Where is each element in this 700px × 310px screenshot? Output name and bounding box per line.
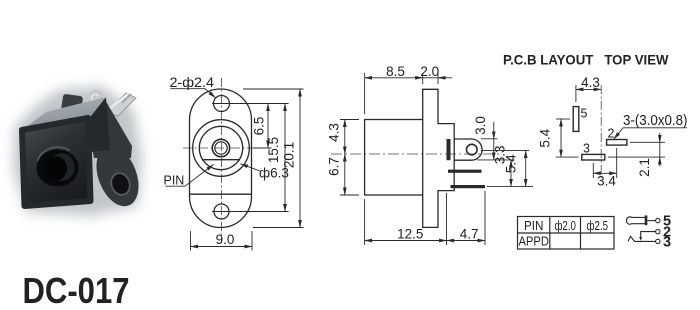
- table column divider 1: [549, 217, 551, 250]
- pin outer circle: [212, 139, 229, 156]
- extension line oval left bottom: [190, 231, 192, 251]
- extension line pad2 center bottom: [616, 148, 618, 178]
- pad 3 slot: [582, 154, 605, 160]
- metal pin loop highlight: [92, 94, 99, 105]
- svg-text:9.0: 9.0: [216, 232, 235, 247]
- svg-text:4.3: 4.3: [581, 75, 600, 90]
- svg-text:4.7: 4.7: [460, 227, 479, 242]
- svg-text:P.C.B LAYOUT TOP VIEW: P.C.B LAYOUT TOP VIEW: [503, 52, 669, 68]
- svg-text:ф2.5: ф2.5: [587, 218, 609, 233]
- metal pin blade notch: [122, 94, 131, 103]
- extension line body left top: [364, 73, 366, 114]
- extension line top hole center: [212, 103, 289, 105]
- metal pin blade: [107, 93, 136, 116]
- solder lug hole: [467, 144, 478, 155]
- side view centerline: [331, 153, 500, 155]
- svg-text:5.4: 5.4: [537, 128, 552, 147]
- extension line pin start bottom: [446, 193, 448, 245]
- flange ear hole: [108, 171, 132, 198]
- top pin: [448, 170, 482, 173]
- bottom pin: [451, 185, 486, 188]
- metal pin blade highlight: [109, 94, 128, 109]
- front view centerline horizontal: [183, 147, 258, 149]
- table row divider: [518, 232, 615, 234]
- dimension 3.0 line: [493, 122, 495, 139]
- svg-text:3.0: 3.0: [473, 116, 488, 135]
- svg-text:4.3: 4.3: [327, 123, 342, 142]
- pcb centerline vertical: [600, 85, 602, 178]
- front view centerline vertical: [221, 78, 223, 243]
- pin 3 lead line with spring lever: [628, 236, 656, 241]
- leader for 3-(3.0x0.8): [614, 128, 687, 139]
- dimension 15.5 line: [284, 104, 286, 212]
- extension line pad3 center bottom: [592, 163, 594, 178]
- dimension 6.7 line: [344, 154, 346, 195]
- dimension 2.0 line: [423, 77, 438, 79]
- photo background halo: [13, 86, 142, 216]
- svg-text:2.1: 2.1: [637, 158, 652, 177]
- extension line lug center: [481, 150, 529, 152]
- svg-text:6.5: 6.5: [252, 117, 267, 136]
- extension line pad3 center right: [608, 156, 665, 158]
- pin 5 plug symbol: [627, 217, 648, 224]
- svg-text:2-ф2.4: 2-ф2.4: [170, 75, 215, 90]
- dimension 3.0 line lower: [493, 139, 495, 160]
- pin 5 lead line: [647, 220, 655, 222]
- extension line lug bottom: [477, 159, 515, 161]
- svg-text:PIN: PIN: [524, 218, 544, 233]
- svg-text:3-(3.0x0.8): 3-(3.0x0.8): [623, 113, 688, 129]
- barrel chord line: [204, 159, 241, 161]
- extension line pad5 center left: [556, 118, 570, 120]
- extension line pin tip bottom: [484, 191, 486, 245]
- dimension 2.1 arrow bottom: [659, 157, 661, 166]
- svg-text:3: 3: [583, 142, 590, 156]
- solder lug tab: [454, 139, 482, 160]
- svg-text:6.7: 6.7: [327, 157, 342, 176]
- mounting hole top: [214, 96, 230, 112]
- svg-text:PIN: PIN: [164, 174, 185, 188]
- dimension 5.4 line: [525, 151, 527, 187]
- barrel hole rim highlight: [38, 147, 71, 161]
- table column divider 2: [580, 217, 582, 250]
- solder lug root: [447, 139, 451, 160]
- leader for PIN: [165, 165, 213, 187]
- dimension 20.1 line: [299, 89, 301, 228]
- flange side band: [86, 98, 132, 158]
- barrel circle large: [193, 120, 250, 177]
- dimension 12.5 line: [365, 240, 447, 242]
- extension line body top left: [340, 119, 359, 121]
- barrel hole inner wall: [50, 153, 75, 181]
- pin 2 terminal circle: [656, 229, 660, 233]
- pad 2 slot: [607, 140, 627, 146]
- table outline: [518, 217, 615, 250]
- extension line pad2 center right: [630, 141, 665, 143]
- svg-text:2: 2: [608, 127, 615, 141]
- svg-text:20.1: 20.1: [282, 142, 297, 168]
- flange chord line: [190, 193, 252, 195]
- metal pin loop: [91, 91, 102, 107]
- pin 2 lead line: [641, 232, 656, 240]
- pin 2 contact arrow: [639, 237, 642, 241]
- extension line bottom hole center: [212, 211, 289, 213]
- barrel hole deep: [46, 157, 67, 181]
- dimension 4.7 line: [447, 240, 486, 242]
- extension line oval right bottom: [251, 231, 253, 251]
- body right side face: [88, 98, 110, 153]
- mounting hole bottom: [214, 204, 229, 219]
- dimension 3.3 line: [510, 160, 512, 187]
- svg-text:12.5: 12.5: [397, 227, 423, 242]
- dimension 8.5 line: [365, 77, 423, 79]
- pin 5 terminal circle: [656, 218, 660, 222]
- svg-text:8.5: 8.5: [386, 64, 405, 79]
- pin 5 plug flange bar: [645, 215, 648, 225]
- dimension 4.3 pcb line: [576, 88, 601, 90]
- dimension 9.0 line: [191, 246, 253, 248]
- svg-text:2.0: 2.0: [420, 64, 439, 79]
- extension line lug top: [481, 138, 498, 140]
- svg-text:ф2.0: ф2.0: [554, 218, 576, 233]
- dimension 2.0 outside arrow: [438, 77, 452, 79]
- pin inner circle: [215, 142, 227, 154]
- pin 3 terminal circle: [656, 239, 660, 243]
- dimension 3.4 line: [593, 172, 616, 174]
- svg-text:DC-017: DC-017: [23, 270, 130, 310]
- dimension 6.5 line: [267, 104, 269, 149]
- dimension 2.1 arrow top: [659, 133, 661, 142]
- flange ear: [88, 140, 146, 212]
- pad 5 slot: [573, 107, 579, 132]
- extension line bottom pin right: [487, 185, 533, 187]
- flange plate outline: [423, 89, 455, 227]
- extension line body left bottom: [364, 199, 366, 245]
- body outline: [365, 120, 423, 196]
- extension line pad5 top: [575, 85, 577, 102]
- body front face: [22, 118, 91, 206]
- extension line body bottom left: [340, 194, 359, 196]
- flange oval outline: [190, 89, 252, 228]
- barrel circle phi6.3: [199, 126, 242, 169]
- svg-text:5.4: 5.4: [503, 154, 518, 173]
- extension line flange right top: [437, 73, 439, 84]
- leader for phi6.3: [241, 164, 261, 171]
- dimension 5.4 pcb line: [560, 119, 562, 157]
- leader for 2-phi2.4: [170, 89, 215, 98]
- dimension 4.3 line: [344, 120, 346, 155]
- barrel hole rim: [37, 150, 79, 187]
- flange top tab: [61, 94, 84, 117]
- svg-text:3.4: 3.4: [597, 174, 616, 189]
- extension line oval bottom: [253, 227, 304, 229]
- extension line oval top: [243, 88, 304, 90]
- svg-text:5: 5: [581, 107, 588, 121]
- dimension 2.1 line: [659, 142, 661, 157]
- body top face: [21, 97, 106, 131]
- extension line pad3 center left: [556, 156, 579, 158]
- svg-text:15.5: 15.5: [266, 137, 281, 163]
- extension line barrel center: [253, 147, 272, 149]
- svg-text:APPD: APPD: [518, 233, 549, 248]
- extension line flange left top: [422, 73, 424, 84]
- svg-text:3: 3: [663, 234, 671, 250]
